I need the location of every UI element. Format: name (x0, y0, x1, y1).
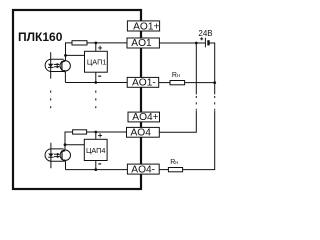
terminal AO1- (127, 77, 159, 87)
terminal AO4 (127, 127, 160, 137)
optocoupler U1 LED cathode bar (48, 66, 53, 68)
phototransistor Q4 emitter arrowhead (63, 159, 66, 162)
wire: +24V bus down (195, 43, 197, 94)
DAC block ЦАП4 (84, 139, 107, 160)
svg-text:24В: 24В (198, 29, 212, 38)
wire: ЦАП4 plus lead (95, 132, 97, 139)
phototransistor Q4 base bar (61, 150, 63, 160)
label battery + (200, 38, 203, 40)
optocoupler U4 LED cathode bar (48, 156, 53, 158)
resistor (ch4 internal) (73, 130, 87, 134)
wire: ЦАП4 minus lead (95, 161, 97, 170)
phototransistor Q4 circle (60, 150, 70, 160)
phototransistor Q4 emitter lead (62, 159, 65, 169)
dotted continuation +24V bus (195, 96, 197, 111)
light arrow 2 (54, 66, 59, 68)
svg-text:AO1-: AO1- (132, 77, 156, 88)
wire: AO1- to load resistor (159, 82, 170, 84)
optocoupler U1 LED triangle (48, 64, 54, 67)
wire: AO4- to load resistor (159, 169, 168, 171)
wire: node N1 to ЦАП1 (66, 54, 85, 56)
phototransistor Q1 collector arrowhead (63, 60, 66, 63)
svg-text:ЦАП1: ЦАП1 (87, 57, 107, 66)
node N4 (64, 143, 67, 146)
DAC block ЦАП1 (85, 51, 108, 72)
node: ЦАП1 plus on rail (94, 42, 97, 45)
phototransistor Q4 collector arrowhead (63, 149, 66, 152)
node N1 (64, 54, 67, 57)
label - (ЦАП1) (98, 75, 101, 77)
svg-text:+: + (98, 43, 103, 52)
wire: +24V bus down to AO4 (159, 111, 196, 132)
wire: ch4 top rail to AO4 (86, 131, 127, 133)
svg-text:ЦАП4: ЦАП4 (86, 146, 106, 155)
node: ЦАП4 minus on rail (94, 168, 97, 171)
dotted continuation left column 2 (95, 91, 97, 110)
battery GB1 24В long plate (204, 38, 206, 48)
optocoupler U1 body (45, 59, 64, 71)
node: ЦАП4 plus on rail (94, 131, 97, 134)
phototransistor Q1 emitter arrowhead (63, 70, 66, 73)
wire: resistor left lead down to node N1 (66, 43, 73, 56)
svg-text:AO4+: AO4+ (132, 112, 158, 123)
terminal AO1+ (127, 21, 159, 31)
PLC enclosure box ПЛК160 (13, 10, 141, 189)
svg-text:AO4: AO4 (131, 127, 152, 138)
wire: Rн1 to 0V bus (185, 82, 215, 84)
wire: ch4 bottom rail (66, 169, 129, 171)
node: 0V bus and Rн1 (213, 81, 216, 84)
light arrow 1 (54, 63, 59, 65)
terminal AO4+ (128, 112, 160, 122)
phototransistor Q1 emitter lead (62, 70, 65, 83)
node: ЦАП1 minus on rail (94, 81, 97, 84)
resistor (ch1 internal) (72, 41, 87, 45)
node: battery plus node (195, 42, 198, 45)
wire: ch4 resistor left lead down to node N4 (65, 132, 73, 145)
wire: ЦАП1 minus lead (95, 72, 97, 82)
phototransistor Q1 base bar (61, 61, 63, 71)
svg-text:AO1: AO1 (131, 38, 152, 49)
optocoupler U4 LED line (50, 143, 52, 168)
dotted continuation 0V bus (214, 96, 216, 111)
svg-text:+: + (98, 131, 103, 140)
wire: 0V bus down to load 4 (183, 111, 215, 170)
resistor Rн (load 4) (168, 168, 182, 172)
dotted continuation left column 1 (50, 91, 52, 110)
wire: node N4 to ЦАП4 (65, 144, 84, 146)
svg-text:Rн: Rн (170, 159, 178, 166)
light arrow 3 (54, 153, 59, 155)
optocoupler U4 LED triangle (48, 154, 54, 157)
optocoupler U1 LED line (50, 52, 52, 78)
optocoupler U4 body (45, 149, 64, 161)
wire: ЦАП1 plus lead (95, 43, 97, 51)
phototransistor Q4 collector lead (63, 145, 65, 152)
label - (ЦАП4) (98, 163, 101, 165)
wire: AO1 to battery plus node (159, 42, 205, 44)
resistor Rн (load 1) (170, 81, 185, 85)
wire: ch1 top rail to AO1 (87, 42, 128, 44)
phototransistor Q1 circle (60, 61, 70, 71)
battery GB1 24В short plate (207, 40, 209, 45)
wire: battery to 0V bus corner (209, 43, 215, 94)
terminal AO4- (127, 164, 159, 174)
phototransistor Q1 collector lead (63, 55, 66, 62)
svg-text:AO1+: AO1+ (133, 22, 159, 33)
light arrow 4 (54, 156, 59, 158)
svg-text:Rн: Rн (172, 72, 180, 79)
svg-text:AO4-: AO4- (131, 164, 155, 175)
wire: ch1 bottom rail (65, 82, 128, 84)
svg-text:ПЛК160: ПЛК160 (18, 30, 63, 44)
terminal AO1 (127, 38, 159, 48)
